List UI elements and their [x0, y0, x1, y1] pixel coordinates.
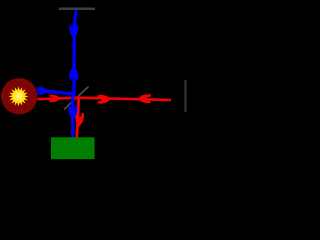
- arrowhead red down (to detector): [75, 113, 84, 126]
- wire: red return beam down to detector: [77, 98, 79, 138]
- source lamp body: [1, 78, 37, 114]
- arrowhead blue right (source side): [37, 87, 48, 95]
- arrowhead blue down (return from top mirror): [69, 25, 78, 38]
- mirror M2 (right, vertical): [184, 80, 186, 112]
- arrowhead red right (source side): [49, 95, 60, 103]
- wire: blue beam source to splitter then up to top mirror: [37, 10, 76, 94]
- arrowhead red right (after splitter): [98, 95, 111, 104]
- detector (green box): [51, 137, 95, 159]
- mirror M1 (top, horizontal): [59, 8, 95, 11]
- arrowhead blue down (to detector): [68, 106, 77, 119]
- arrowhead red left (return beam): [138, 94, 151, 103]
- source star: [9, 86, 29, 106]
- beam splitter (diagonal): [64, 87, 89, 110]
- arrowhead blue up (toward top mirror): [69, 66, 78, 79]
- wire: blue beam splitter down to detector: [71, 93, 74, 138]
- wire: red beam source to right mirror: [38, 98, 172, 100]
